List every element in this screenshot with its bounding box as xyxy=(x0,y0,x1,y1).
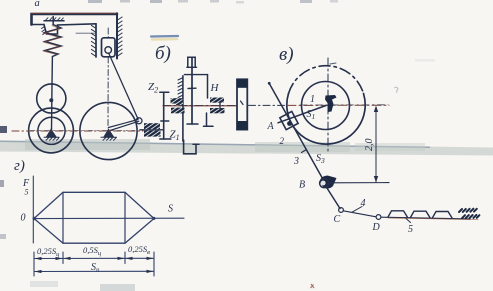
link 3 end dot xyxy=(268,82,271,85)
central shaft top box xyxy=(188,57,195,67)
dim1 arrows xyxy=(35,257,63,260)
link C-D and track line xyxy=(343,211,470,219)
svg-text:2: 2 xyxy=(280,136,285,146)
box bottom tick xyxy=(187,66,197,68)
leader for 5 xyxy=(405,218,411,223)
axis dash-dot to wheel xyxy=(249,104,288,106)
ground hatch right lower row xyxy=(462,215,479,218)
dim2 arrows xyxy=(35,270,154,273)
svg-text:С: С xyxy=(334,214,341,225)
link B-C xyxy=(326,187,340,209)
roller pair outer circle xyxy=(29,108,74,153)
anchor wall hatching xyxy=(42,27,46,35)
connecting rod xyxy=(109,53,138,119)
ground hatch right upper row xyxy=(459,209,477,212)
right wall hatching xyxy=(118,17,123,56)
tiny speck near dimension top xyxy=(394,87,398,93)
center ink blob xyxy=(325,95,337,112)
main central shaft xyxy=(191,57,193,124)
carrier arm lower vertical xyxy=(206,113,208,126)
right vertex ink dot xyxy=(152,217,155,220)
tick on link 3 xyxy=(302,150,307,153)
slider pin xyxy=(105,47,112,54)
S axis xyxy=(33,217,184,219)
axis dash-dot to wheel xyxy=(249,104,288,106)
top roller circle xyxy=(37,84,66,113)
spring anchor wall xyxy=(44,24,96,34)
svg-text:в): в) xyxy=(279,44,294,65)
slider square A xyxy=(280,111,298,129)
svg-text:0: 0 xyxy=(21,213,26,224)
joint C circle xyxy=(339,208,344,213)
guide left wall xyxy=(95,24,97,57)
ground line red fringe xyxy=(388,218,478,220)
Z2 shaft middle tick xyxy=(161,120,169,122)
left coaxial shaft xyxy=(182,76,184,141)
F axis xyxy=(32,176,34,243)
hexagon internal vertical left xyxy=(62,192,64,243)
joint D circle xyxy=(376,215,381,220)
svg-text:2,0: 2,0 xyxy=(364,139,375,152)
link 3 line xyxy=(269,83,325,182)
joint B circle xyxy=(320,179,329,188)
wheel vertical center line xyxy=(327,58,329,152)
wheel inner circle xyxy=(302,82,350,130)
roller pair inner circle xyxy=(38,117,65,144)
origin ink dot xyxy=(33,217,36,220)
crank arm xyxy=(109,120,139,132)
frame ceiling top beam xyxy=(32,14,118,25)
line B to dimension xyxy=(329,182,389,184)
crank pin xyxy=(136,118,142,124)
svg-text:5: 5 xyxy=(25,188,29,197)
svg-text:1: 1 xyxy=(310,94,315,105)
wheel outer circle solid lower arc xyxy=(287,94,365,145)
crank disk xyxy=(80,102,137,159)
spring T-bar anchor xyxy=(44,17,64,25)
slider A ink speck xyxy=(287,121,292,126)
horizontal center line through rollers xyxy=(12,130,143,132)
carrier bottom cap xyxy=(204,125,214,127)
shaft tick 2 xyxy=(188,87,196,89)
Z2 mesh block lower xyxy=(171,108,185,114)
input shaft lower xyxy=(140,129,164,131)
faint horizontal line to slider xyxy=(76,32,96,34)
blue scan dash above label xyxy=(151,35,178,38)
left edge mark xyxy=(0,126,7,133)
crank line to slider A xyxy=(278,106,326,123)
frame shelf left xyxy=(32,24,45,26)
svg-text:б): б) xyxy=(155,43,171,64)
pivot left triangle xyxy=(47,130,57,138)
wheel horizontal center line xyxy=(287,104,389,106)
bottom smudges xyxy=(100,284,135,291)
dim line 2 xyxy=(34,270,154,272)
band top edge line xyxy=(0,141,430,147)
slider axis dash-dot xyxy=(107,28,109,128)
shaft mesh block left xyxy=(176,100,183,106)
track shoe 1 xyxy=(388,211,408,217)
output gear block rectangle xyxy=(237,79,247,129)
input shaft bearing hatch upper xyxy=(144,123,160,129)
dimension ticks row xyxy=(34,252,154,276)
track shoe 3 xyxy=(433,212,453,218)
pivot right hatch xyxy=(101,137,117,140)
main axis line red xyxy=(163,105,237,107)
wheel outer circle dashed top arc xyxy=(289,66,364,94)
planet axle vertical xyxy=(219,102,221,109)
slider box xyxy=(102,38,116,57)
red speck bottom middle xyxy=(311,284,315,288)
dimension arrow top xyxy=(374,106,378,113)
T-bar ticks xyxy=(46,18,64,21)
svg-text:3: 3 xyxy=(293,156,299,167)
svg-text:4: 4 xyxy=(361,198,366,209)
dimension arrow bottom xyxy=(374,176,378,183)
Z2 shaft bottom cap xyxy=(160,138,171,140)
main shaft bottom cap xyxy=(187,123,198,125)
pivot left hatch xyxy=(44,137,59,140)
main axis dash overlay xyxy=(163,104,237,106)
track shoe 2 xyxy=(411,211,431,217)
top roller center dot xyxy=(49,98,53,102)
svg-text:г): г) xyxy=(14,158,25,174)
carrier mesh upper xyxy=(210,98,224,103)
hexagon outline xyxy=(34,192,154,243)
svg-text:А: А xyxy=(267,121,275,132)
crank disk pivot triangle xyxy=(104,130,114,138)
joint B ink blob xyxy=(320,176,337,189)
right wall xyxy=(116,13,118,58)
Z2 shaft top cap xyxy=(160,91,169,93)
carrier upper rail xyxy=(185,74,208,76)
shaft left hatch column xyxy=(178,78,182,98)
svg-text:S: S xyxy=(168,204,173,215)
gear Z2 shaft vertical xyxy=(163,92,165,139)
leader for 4 xyxy=(352,207,362,213)
bottom U bracket xyxy=(184,140,196,154)
input shaft bearing hatch lower xyxy=(144,131,161,137)
spring xyxy=(45,25,61,57)
dim line 1 xyxy=(34,257,154,259)
U right cap xyxy=(193,143,199,145)
left edge small mark xyxy=(0,180,4,187)
joint B pin hole xyxy=(321,181,326,186)
svg-text:В: В xyxy=(299,180,305,191)
svg-text:а: а xyxy=(35,0,40,9)
roller axle rod xyxy=(51,85,54,131)
top edge specks xyxy=(88,0,102,3)
carrier mesh lower xyxy=(210,108,225,113)
svg-text:D: D xyxy=(372,222,381,233)
Z2 mesh block upper xyxy=(171,98,184,103)
carrier arm upper vertical xyxy=(207,75,209,98)
svg-text:5: 5 xyxy=(408,224,413,235)
hexagon internal vertical right xyxy=(124,192,126,243)
spring rod down to roller xyxy=(51,57,53,86)
svg-text:Н: Н xyxy=(210,82,220,94)
guide wall hatching xyxy=(91,25,95,56)
scan band across middle xyxy=(0,141,493,156)
dimension vertical line xyxy=(375,108,377,183)
